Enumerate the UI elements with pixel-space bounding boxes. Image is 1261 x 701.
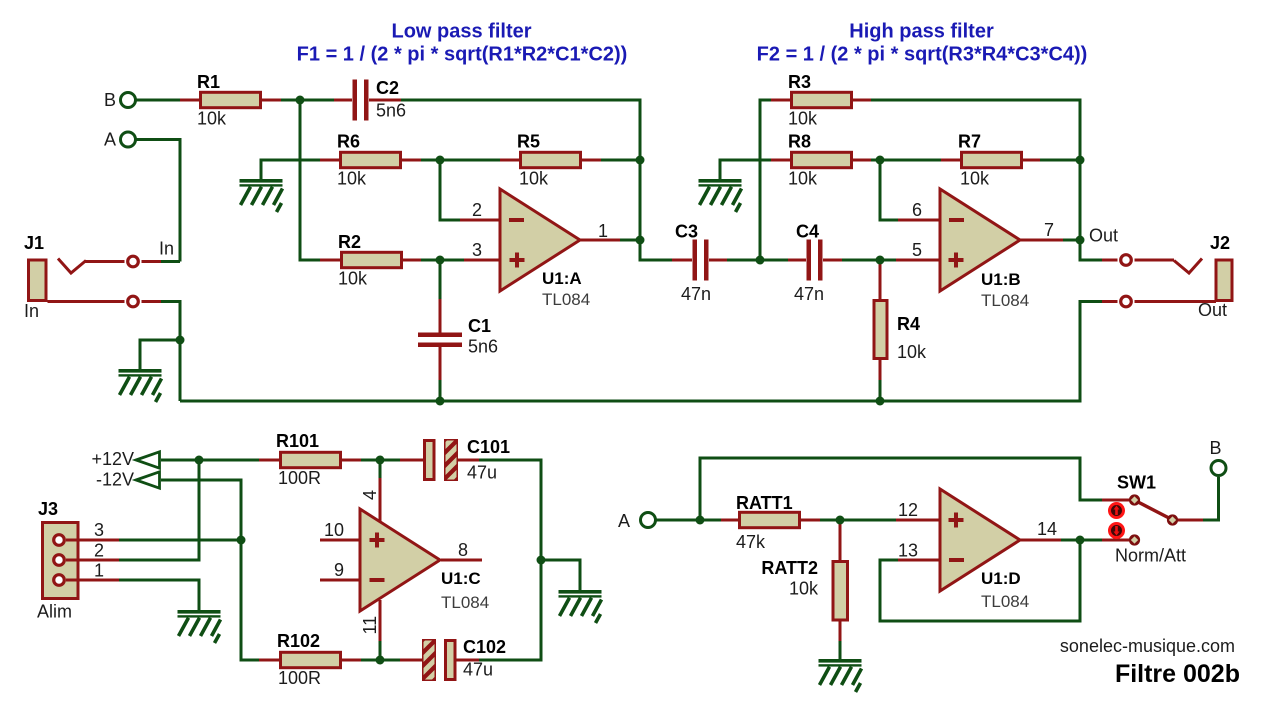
svg-text:R6: R6 — [337, 132, 360, 152]
svg-text:High pass filter: High pass filter — [849, 21, 994, 43]
svg-text:3: 3 — [94, 520, 104, 540]
svg-text:2: 2 — [94, 541, 104, 561]
svg-text:100R: 100R — [278, 668, 321, 688]
svg-text:5: 5 — [912, 240, 922, 260]
svg-text:10k: 10k — [788, 109, 818, 129]
svg-text:A: A — [104, 130, 116, 150]
svg-text:9: 9 — [334, 560, 344, 580]
svg-text:5n6: 5n6 — [376, 101, 406, 121]
svg-text:RATT1: RATT1 — [736, 493, 793, 513]
svg-text:C1: C1 — [468, 316, 491, 336]
svg-text:R4: R4 — [897, 314, 920, 334]
svg-text:TL084: TL084 — [981, 592, 1029, 611]
svg-text:Low pass filter: Low pass filter — [391, 21, 531, 43]
svg-text:Out: Out — [1089, 226, 1118, 246]
svg-text:Norm/Att: Norm/Att — [1115, 546, 1186, 566]
svg-text:B: B — [104, 90, 116, 110]
svg-text:R1: R1 — [197, 72, 220, 92]
svg-text:Alim: Alim — [37, 602, 72, 622]
svg-text:R101: R101 — [276, 431, 319, 451]
svg-text:1: 1 — [94, 561, 104, 581]
svg-text:TL084: TL084 — [981, 291, 1029, 310]
svg-text:F2 = 1 / (2 * pi * sqrt(R3*R4*: F2 = 1 / (2 * pi * sqrt(R3*R4*C3*C4)) — [757, 44, 1088, 66]
svg-text:10k: 10k — [960, 169, 990, 189]
svg-text:10k: 10k — [337, 169, 367, 189]
svg-text:TL084: TL084 — [542, 290, 590, 309]
svg-text:10k: 10k — [338, 269, 368, 289]
svg-text:R7: R7 — [958, 132, 981, 152]
svg-text:5n6: 5n6 — [468, 337, 498, 357]
svg-text:4: 4 — [360, 490, 380, 500]
svg-text:RATT2: RATT2 — [761, 558, 818, 578]
svg-text:10k: 10k — [197, 109, 227, 129]
svg-text:7: 7 — [1044, 220, 1054, 240]
svg-text:+12V: +12V — [91, 449, 134, 469]
svg-text:1: 1 — [598, 221, 608, 241]
svg-text:6: 6 — [912, 200, 922, 220]
svg-text:Out: Out — [1198, 300, 1227, 320]
svg-text:sonelec-musique.com: sonelec-musique.com — [1060, 636, 1235, 656]
svg-text:13: 13 — [898, 541, 918, 561]
svg-text:8: 8 — [458, 540, 468, 560]
svg-text:47n: 47n — [794, 284, 824, 304]
svg-text:J3: J3 — [38, 499, 58, 519]
svg-text:U1:A: U1:A — [542, 269, 582, 288]
svg-text:C4: C4 — [796, 222, 819, 242]
svg-text:R2: R2 — [338, 232, 361, 252]
svg-text:C3: C3 — [675, 222, 698, 242]
svg-text:B: B — [1209, 438, 1221, 458]
svg-text:10k: 10k — [788, 169, 818, 189]
svg-text:10: 10 — [324, 520, 344, 540]
svg-text:J1: J1 — [24, 233, 44, 253]
svg-text:11: 11 — [360, 616, 380, 635]
svg-text:C2: C2 — [376, 78, 399, 98]
svg-text:-12V: -12V — [96, 470, 134, 490]
svg-text:U1:C: U1:C — [441, 569, 481, 588]
svg-text:TL084: TL084 — [441, 593, 489, 612]
svg-text:47u: 47u — [467, 463, 497, 483]
svg-text:C101: C101 — [467, 437, 510, 457]
svg-text:47n: 47n — [681, 284, 711, 304]
svg-text:14: 14 — [1037, 519, 1057, 539]
svg-text:47u: 47u — [463, 660, 493, 680]
svg-text:R5: R5 — [517, 132, 540, 152]
svg-text:100R: 100R — [278, 468, 321, 488]
svg-text:10k: 10k — [897, 342, 927, 362]
svg-text:12: 12 — [898, 500, 918, 520]
svg-text:J2: J2 — [1210, 233, 1230, 253]
svg-text:2: 2 — [472, 200, 482, 220]
svg-text:R8: R8 — [788, 132, 811, 152]
svg-text:F1 = 1 / (2 * pi * sqrt(R1*R2*: F1 = 1 / (2 * pi * sqrt(R1*R2*C1*C2)) — [297, 44, 628, 66]
svg-text:C102: C102 — [463, 637, 506, 657]
svg-text:Filtre 002b: Filtre 002b — [1115, 660, 1240, 688]
svg-text:47k: 47k — [736, 532, 766, 552]
svg-text:10k: 10k — [789, 579, 819, 599]
svg-text:3: 3 — [472, 240, 482, 260]
svg-text:R102: R102 — [277, 631, 320, 651]
svg-text:A: A — [618, 511, 630, 531]
svg-text:U1:B: U1:B — [981, 270, 1021, 289]
svg-text:10k: 10k — [519, 169, 549, 189]
svg-text:In: In — [24, 301, 39, 321]
svg-text:R3: R3 — [788, 72, 811, 92]
svg-text:In: In — [159, 239, 174, 259]
svg-text:SW1: SW1 — [1117, 473, 1156, 493]
svg-text:U1:D: U1:D — [981, 569, 1021, 588]
